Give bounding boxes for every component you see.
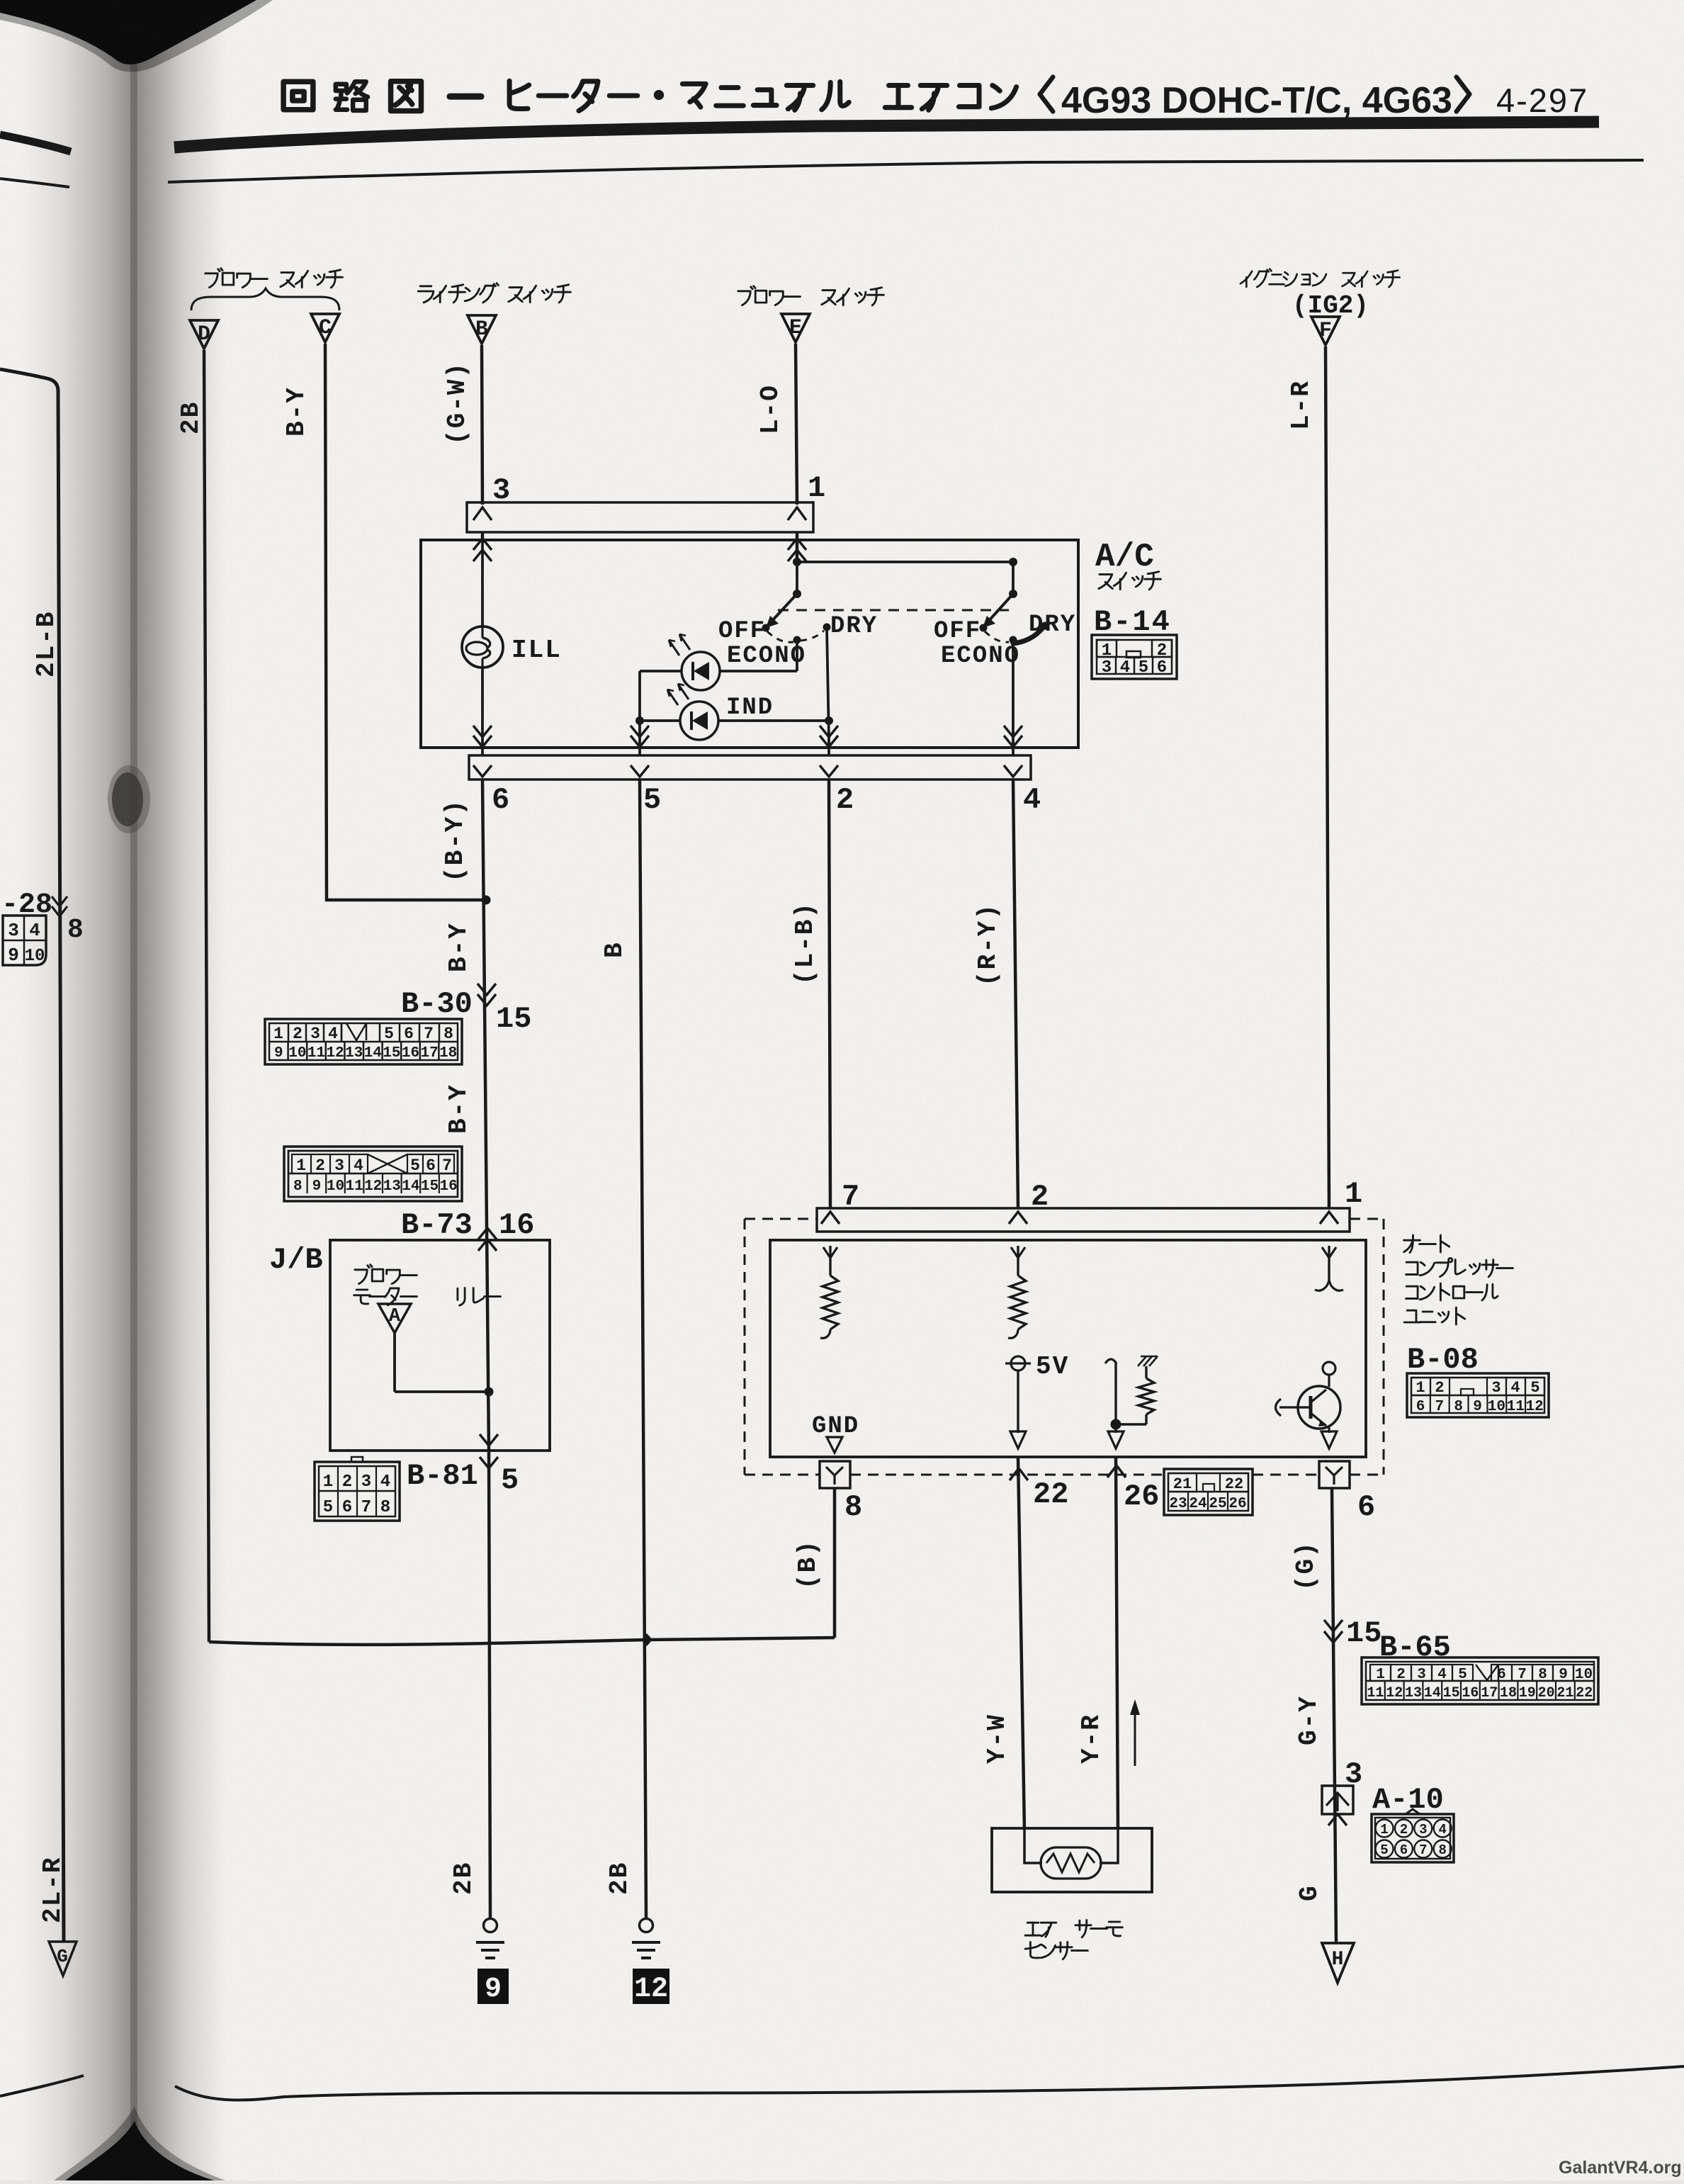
unit connector strip (pins 7,2,1) bbox=[817, 1177, 1362, 1232]
flow arrow bbox=[1130, 1699, 1140, 1766]
wire E (L-O) bbox=[796, 344, 797, 505]
unit solid box bbox=[770, 1240, 1366, 1457]
connector B-30 bbox=[265, 1019, 462, 1064]
switch2 arm bbox=[988, 594, 1013, 622]
wire 26 (Y-R) bbox=[1107, 1457, 1159, 1830]
lamp ILL bbox=[462, 540, 562, 738]
resistor 1 hook bbox=[820, 1329, 830, 1338]
brace bbox=[191, 288, 339, 310]
5V reference bbox=[1005, 1352, 1069, 1448]
connector B-14 pinout bbox=[1092, 635, 1177, 679]
LED IND 2 bbox=[640, 684, 829, 740]
junction block J/B bbox=[330, 1240, 550, 1451]
wire F (L-R) bbox=[1326, 347, 1329, 1208]
thermistor element bbox=[1041, 1847, 1101, 1879]
page title bbox=[283, 77, 1588, 121]
junction diamond bbox=[641, 1633, 652, 1646]
wire to ground 9 bbox=[489, 1451, 490, 1919]
air thermo sensor box bbox=[992, 1828, 1152, 1892]
connector A-10 bbox=[1372, 1809, 1454, 1862]
switch1 contacts bbox=[762, 624, 831, 644]
mechanical link dashed bbox=[778, 609, 1009, 612]
wire D (2B) bbox=[204, 350, 209, 1642]
unit pin 8 square bbox=[820, 1461, 862, 1524]
wire led column left bbox=[635, 671, 644, 738]
A/C switch box B-14 bbox=[421, 540, 1078, 748]
junction with C wire bbox=[482, 896, 491, 905]
ground 12 symbol bbox=[640, 1919, 653, 1932]
ground badge 9 bbox=[477, 1969, 509, 2005]
book gutter top shadow bbox=[0, 0, 273, 72]
label A/C switch bbox=[1095, 539, 1160, 590]
switch1 labels bbox=[718, 613, 878, 670]
connector strip B-14 top (pins 3,1) bbox=[467, 471, 825, 532]
wire C (B-Y) bbox=[325, 344, 482, 900]
wire pin2 (L-B) bbox=[829, 779, 830, 1208]
facing page connector A-28 fragment bbox=[3, 916, 46, 966]
facing page terminal G bbox=[49, 1942, 77, 1976]
thermistor branch bbox=[1105, 1356, 1158, 1448]
junction dot in J/B bbox=[485, 1387, 494, 1397]
connector B-65 bbox=[1362, 1657, 1598, 1704]
switch2 pivot bbox=[1009, 558, 1017, 598]
wire pin6 (B-Y) bbox=[482, 779, 489, 1451]
wire econo2/pin4 column bbox=[1012, 640, 1015, 738]
arrow 15 into B-30 bbox=[477, 984, 531, 1036]
switch2 closed arm to DRY bbox=[1013, 628, 1043, 643]
wire B (G-W) bbox=[482, 345, 482, 505]
wire 22 (Y-W) bbox=[1010, 1457, 1068, 1830]
connector strip B-14 bottom (pins 6,5,2,4) bbox=[469, 755, 1041, 817]
facing page thin rule fragment bbox=[0, 179, 69, 187]
facing page box edge bbox=[0, 369, 64, 1942]
terminal F bbox=[1311, 317, 1340, 345]
connector 21-26 bbox=[1164, 1469, 1253, 1515]
wire pin6 (G) bbox=[1332, 1488, 1336, 1942]
title thin rule bbox=[168, 160, 1644, 182]
wire pin3 to box bbox=[481, 532, 485, 540]
arrows out of A/C box bbox=[473, 726, 1022, 755]
sensor internal wiring bbox=[1024, 1830, 1118, 1863]
terminal B bbox=[468, 315, 496, 344]
arrow into A/C box pin3 bbox=[473, 539, 492, 561]
LED IND 1 bbox=[640, 634, 797, 690]
page bottom edge lines bbox=[0, 2076, 84, 2096]
unit pin 6 square bbox=[1319, 1461, 1375, 1524]
facing page thick rule fragment bbox=[0, 135, 71, 152]
switch1 link to switch2 bbox=[797, 561, 1013, 563]
switch1 feed junction bbox=[793, 558, 801, 598]
ground badge 12 bbox=[633, 1969, 669, 2005]
wire pin8 (B) bbox=[833, 1488, 837, 1638]
arrow 15 into B-65 bbox=[1324, 1616, 1381, 1650]
staple blob bbox=[112, 772, 143, 826]
unit pin1 input hook bbox=[1315, 1246, 1343, 1290]
arrow into A/C box pin1 bbox=[788, 539, 806, 561]
ground bus wire bbox=[209, 1638, 835, 1645]
label blower motor relay bbox=[354, 1265, 501, 1306]
unit input resistor 2 bbox=[1008, 1246, 1026, 1338]
terminal D bbox=[190, 320, 218, 349]
title thick rule bbox=[174, 122, 1599, 147]
arrow 16 into J/B bbox=[478, 1208, 534, 1251]
arrow 5 out of J/B bbox=[480, 1434, 519, 1497]
relay coil A bbox=[378, 1304, 489, 1392]
switch2 labels bbox=[934, 612, 1076, 670]
inline connector A-10 bbox=[1322, 1786, 1353, 1825]
GND pin bbox=[812, 1413, 859, 1453]
terminal E bbox=[781, 314, 810, 342]
connector B-08 bbox=[1407, 1373, 1549, 1417]
label air thermo sensor bbox=[1025, 1920, 1122, 1959]
book gutter bottom shadow bbox=[54, 2106, 225, 2180]
unit input resistor 1 bbox=[823, 1246, 838, 1329]
switch2 contacts bbox=[980, 622, 1049, 644]
wire pin5 (B) bbox=[640, 779, 646, 1919]
wire dry/pin2 column bbox=[825, 627, 833, 738]
label blower switch (D/C) bbox=[205, 269, 268, 288]
label ignition switch (F) bbox=[1241, 269, 1326, 287]
terminal H bbox=[1322, 1943, 1354, 1983]
connector B-73 bbox=[284, 1147, 462, 1201]
transistor bbox=[1276, 1362, 1341, 1448]
wire pin4 (R-Y) bbox=[1013, 779, 1018, 1208]
label blower switch (E) bbox=[738, 286, 801, 305]
terminal C bbox=[311, 314, 339, 342]
switch1 arm bbox=[771, 594, 797, 622]
ground 9 symbol bbox=[484, 1919, 497, 1932]
connector B-81 bbox=[315, 1457, 400, 1521]
label lighting switch (B) bbox=[418, 283, 498, 303]
unit label text bbox=[1404, 1235, 1513, 1324]
unit dashed boundary bbox=[745, 1219, 1384, 1475]
facing page wire arrow 8 bbox=[52, 896, 84, 945]
